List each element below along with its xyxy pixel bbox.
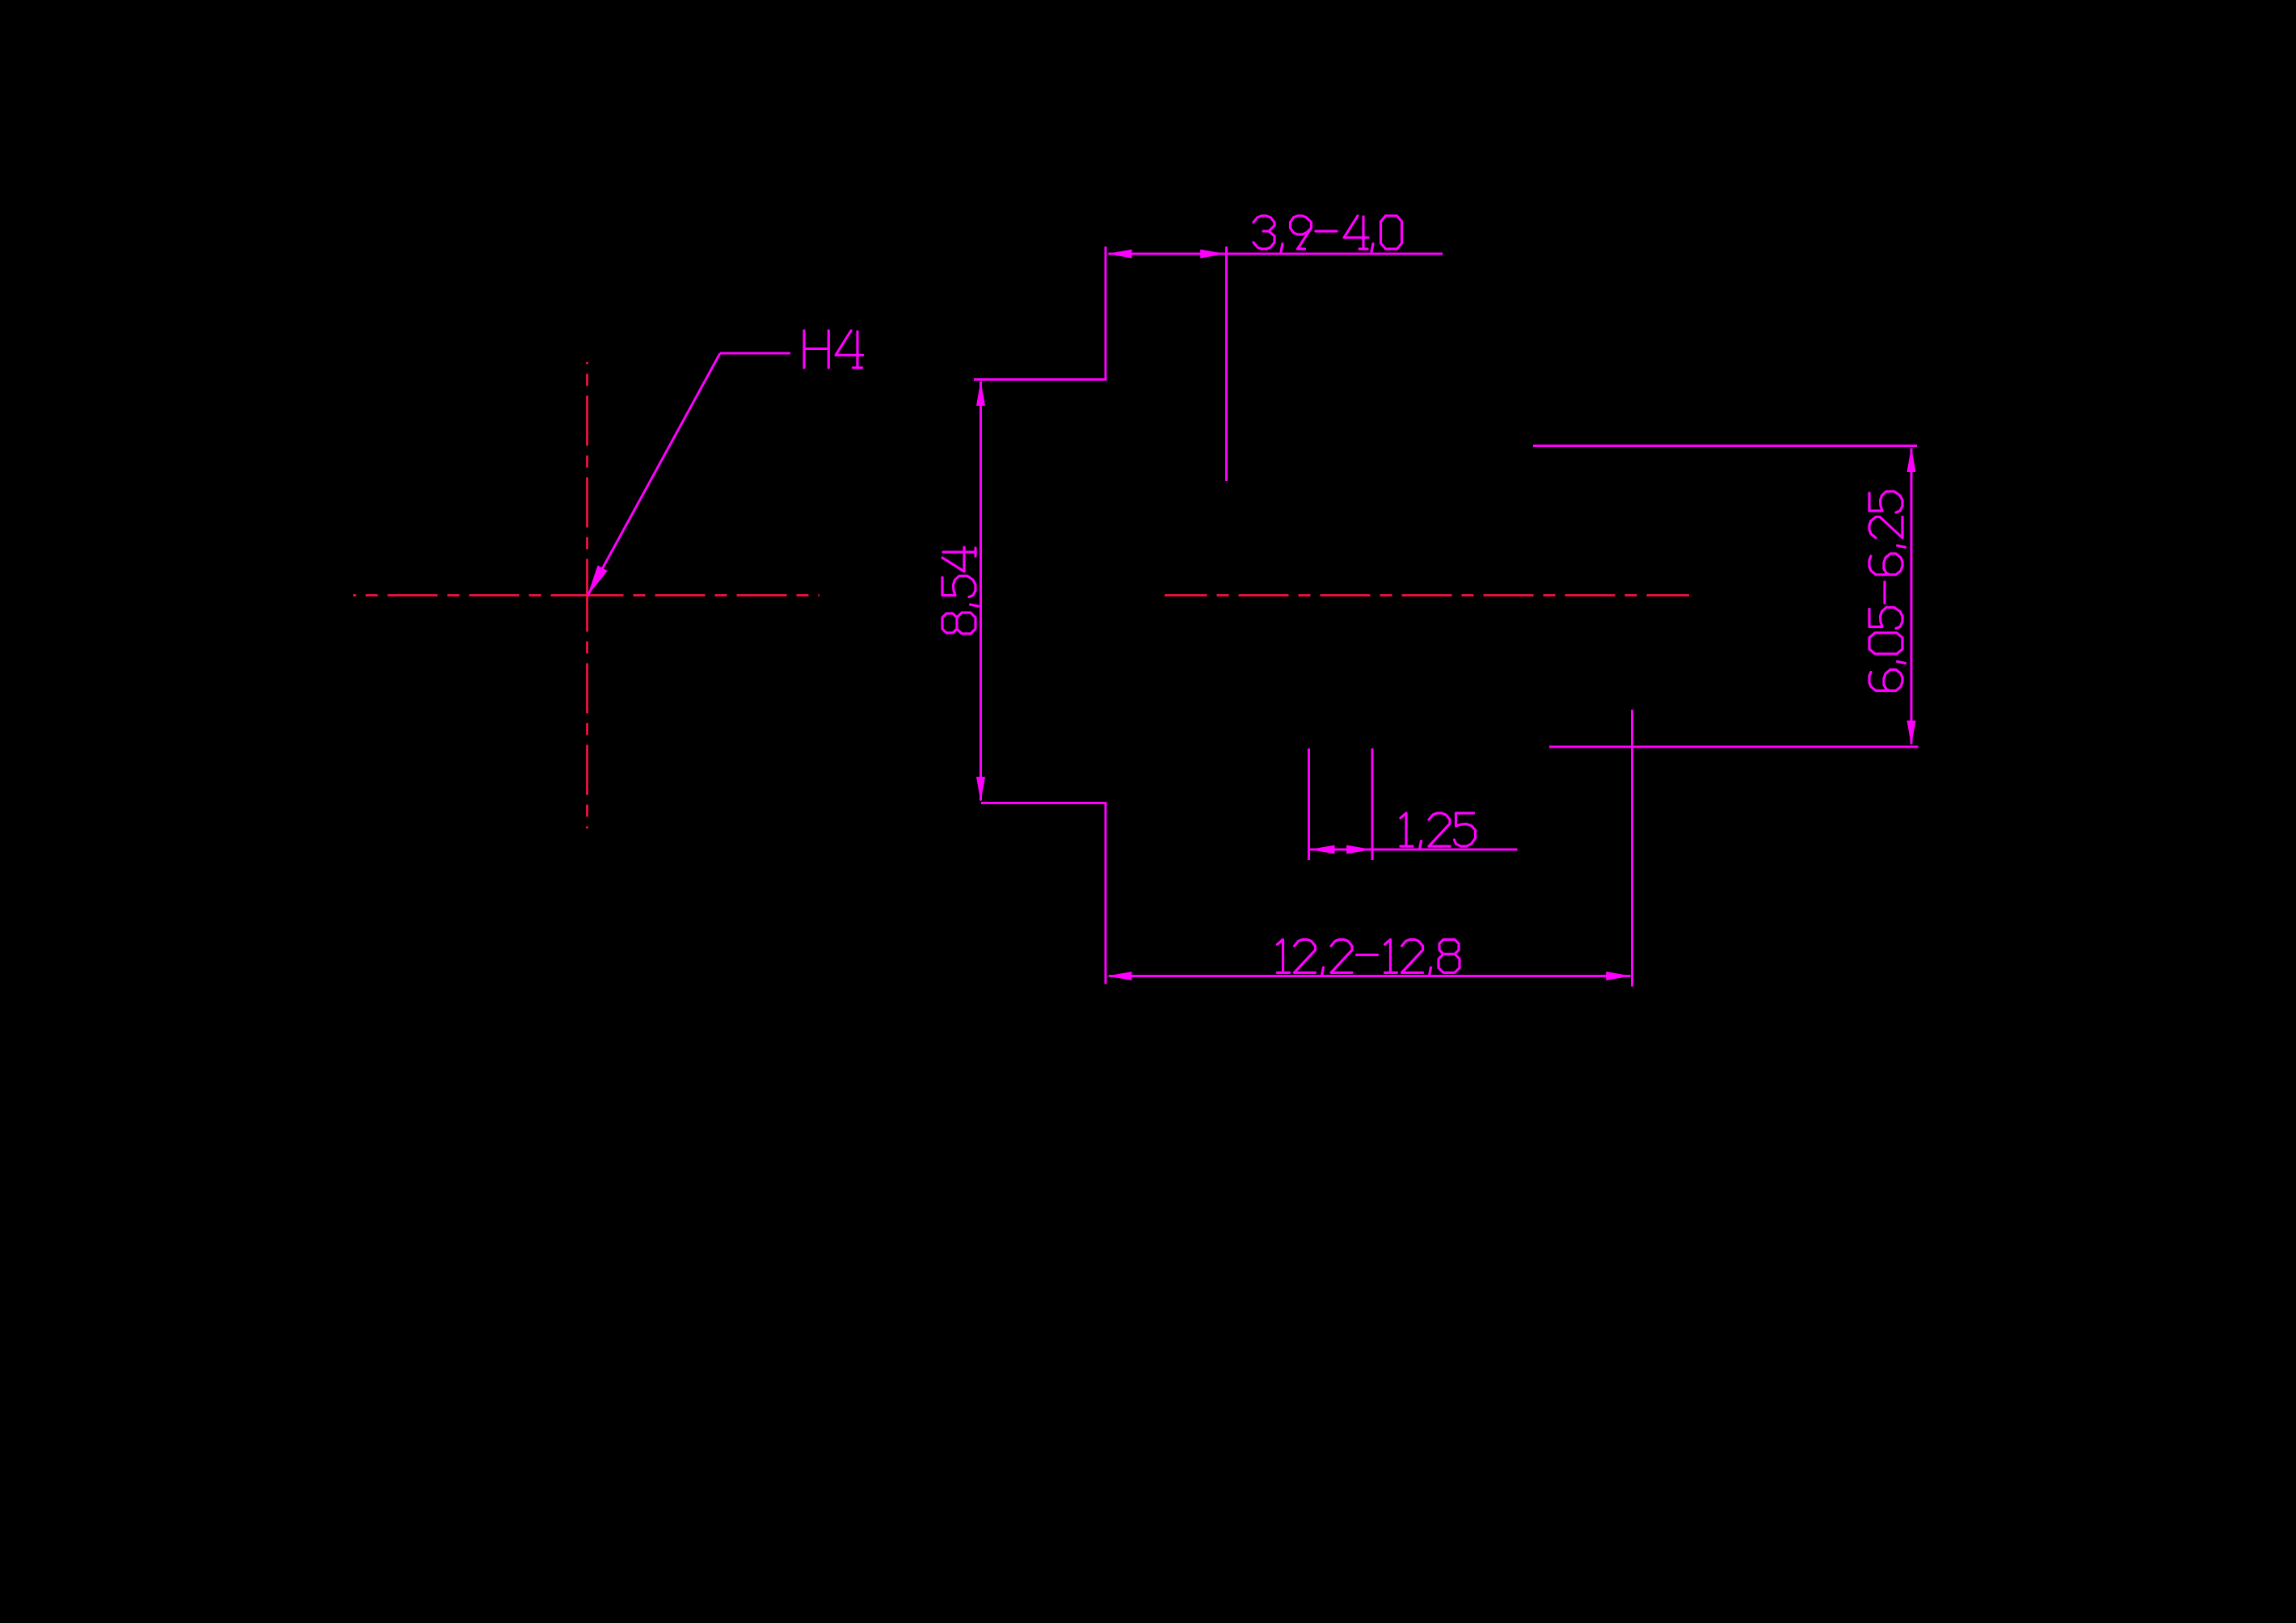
centerline vertical left crosshair bbox=[586, 362, 588, 365]
arrowhead right dim 3.9-4.0 bbox=[1200, 250, 1225, 259]
dimension line 3.9-4.0 bbox=[1109, 253, 1443, 255]
extension line left of dim 3.9-4.0 bbox=[1105, 247, 1107, 381]
leader arrow to crosshair center bbox=[588, 565, 608, 596]
arrowhead left dim 3.9-4.0 bbox=[1107, 250, 1132, 259]
label H4 bbox=[804, 331, 863, 368]
dimension line 6.05-6.25 bbox=[1911, 449, 1913, 744]
extension line right of dim 3.9-4.0 bbox=[1225, 247, 1228, 481]
dimension text 6,05-6,25 rotated bbox=[1869, 491, 1906, 691]
dimension line 8.54 bbox=[979, 382, 982, 801]
extension line right of dim 12.2-12.8 bbox=[1631, 710, 1633, 987]
extension line top of dim 6.05-6.25 bbox=[1533, 445, 1917, 447]
extension line top of dim 8.54 bbox=[974, 378, 1106, 381]
arrowhead right dim 1.25 bbox=[1346, 845, 1371, 854]
arrowhead down dim 8.54 bbox=[976, 777, 985, 802]
dimension text 8,54 rotated bbox=[942, 547, 979, 634]
arrowhead down dim 6.05-6.25 bbox=[1907, 721, 1916, 746]
dimension text 3,9-4,0 bbox=[1253, 216, 1402, 252]
dimension text 12,2-12,8 bbox=[1278, 939, 1460, 976]
extension line bottom of dim 8.54 bbox=[981, 802, 1106, 804]
centerline horizontal left crosshair bbox=[353, 594, 356, 597]
extension line left of dim 1.25 bbox=[1308, 748, 1310, 860]
arrowhead left dim 12.2-12.8 bbox=[1107, 972, 1132, 980]
arrowhead up dim 6.05-6.25 bbox=[1907, 447, 1916, 472]
arrowhead left dim 1.25 bbox=[1310, 845, 1335, 854]
extension line left of dim 12.2-12.8 bbox=[1105, 803, 1107, 984]
extension line right of dim 1.25 bbox=[1371, 748, 1374, 860]
centerline horizontal right bbox=[1165, 594, 1207, 597]
arrowhead right dim 12.2-12.8 bbox=[1606, 972, 1631, 980]
leader diagonal segment bbox=[588, 353, 720, 596]
extension line bottom of dim 6.05-6.25 bbox=[1549, 746, 1919, 748]
leader horizontal segment bbox=[720, 352, 790, 355]
arrowhead up dim 8.54 bbox=[976, 381, 985, 406]
dimension line 1.25 bbox=[1310, 849, 1518, 851]
dimension text 1,25 bbox=[1401, 813, 1476, 849]
dimension line 12.2-12.8 bbox=[1109, 975, 1631, 977]
